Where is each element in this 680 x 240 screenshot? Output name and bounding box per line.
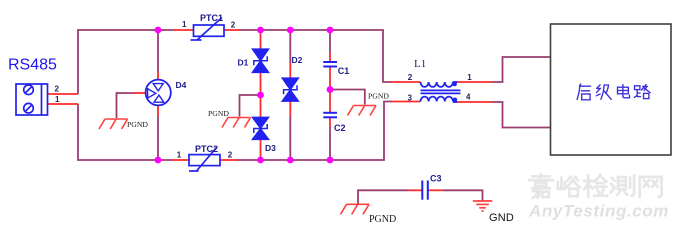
block: following-stage circuit box <box>551 24 672 155</box>
svg-text:C1: C1 <box>338 66 350 76</box>
svg-text:1: 1 <box>467 73 472 82</box>
wire D4 left to PGND1 <box>117 93 134 118</box>
svg-text:4: 4 <box>466 92 471 101</box>
wire D1-D3 midpoint to PGND2 <box>240 95 261 117</box>
svg-text:C3: C3 <box>430 173 442 183</box>
pin L1-4 red stub <box>458 101 492 103</box>
junction dot bottom rail at D3 <box>257 157 264 164</box>
svg-text:PGND: PGND <box>368 92 389 101</box>
pin RS485-1 red stub <box>48 103 79 105</box>
pin D4 top red stub <box>157 72 159 81</box>
svg-text:PTC2: PTC2 <box>195 144 218 154</box>
pin D3 bottom red stub <box>260 139 262 160</box>
wire D2 lower maroon part <box>289 116 291 160</box>
pin D2 bottom red stub <box>289 101 291 116</box>
pin RS485-2 red stub <box>48 93 79 95</box>
pin L1-1 red stub <box>458 81 492 83</box>
ground PGND symbol 2 (near D1/D3) <box>222 118 251 128</box>
pin PTC2-2 red stub <box>220 159 237 161</box>
ground PGND symbol 3 (near L1) <box>348 106 377 116</box>
wire net-A top rail right of PTC1 to L1 pin2 <box>240 30 392 82</box>
wire net-B bottom rail right of PTC2 to L1 pin3 <box>237 102 392 161</box>
diode D1 (bidirectional TVS) <box>252 49 269 73</box>
junction dot bottom rail at C2 <box>327 157 334 164</box>
diode D3 (bidirectional TVS) <box>252 117 269 139</box>
pin D1 bottom red stub <box>260 73 262 96</box>
pin C2 bottom red stub <box>329 117 331 127</box>
wire D2 upper maroon part <box>289 30 291 63</box>
svg-text:2: 2 <box>408 73 413 82</box>
svg-text:D2: D2 <box>292 55 303 65</box>
wire L1 pin1 to box <box>491 57 550 82</box>
svg-text:D4: D4 <box>176 80 187 90</box>
junction dot bottom rail at D2 <box>287 157 294 164</box>
junction dot top rail at D1 <box>257 27 264 34</box>
svg-text:2: 2 <box>228 150 233 159</box>
junction dot C1-C2 node <box>327 86 334 93</box>
pin C1 bottom red stub <box>329 67 331 90</box>
wire L1 pin4 to box <box>491 102 550 128</box>
pin D3 top red stub <box>260 95 262 119</box>
pin PTC1-2 red stub <box>224 29 240 31</box>
connector RS485 (2-pin terminal block) <box>16 84 48 115</box>
capacitor C1 <box>323 62 337 67</box>
ground GND symbol (bottom, C3 right) <box>473 201 493 211</box>
svg-text:1: 1 <box>182 20 187 29</box>
svg-text:L1: L1 <box>414 58 426 70</box>
junction dot top rail at C1 <box>327 27 334 34</box>
svg-text:RS485: RS485 <box>8 57 57 74</box>
svg-text:PTC1: PTC1 <box>200 13 223 23</box>
svg-text:2: 2 <box>231 21 236 30</box>
resistor PTC2 (PTC thermistor) <box>189 148 220 172</box>
svg-text:2: 2 <box>55 85 60 94</box>
svg-text:PGND: PGND <box>208 109 229 118</box>
junction dot top rail at D4 <box>155 27 162 34</box>
wire C3 net: cap to GND <box>443 190 483 200</box>
wire C3 net: PGND4 to cap <box>358 190 409 204</box>
pin PTC1-1 red stub <box>174 29 194 31</box>
svg-text:D3: D3 <box>265 143 276 153</box>
text 后级电路 (hand-drawn CJK strokes) <box>577 84 650 100</box>
watermark 嘉峪检测网 (hand-drawn CJK strokes) <box>529 174 661 197</box>
pin L1-2 red stub <box>392 81 421 83</box>
diode D4 (gas discharge tube) <box>146 80 171 106</box>
pin D4 bottom red stub <box>157 106 159 116</box>
junction dot bottom rail at D4 <box>155 157 162 164</box>
pin PTC2-1 red stub <box>172 159 189 161</box>
resistor PTC1 (PTC thermistor) <box>191 18 225 41</box>
svg-text:PGND: PGND <box>127 120 148 129</box>
svg-text:AnyTesting.com: AnyTesting.com <box>528 201 669 220</box>
wire C1 upper maroon part <box>329 30 331 53</box>
svg-text:3: 3 <box>408 93 413 102</box>
junction dot D1-D3 node <box>257 92 264 99</box>
pin C1 top red stub <box>329 53 331 62</box>
inductor L1 (common-mode choke) <box>421 82 461 102</box>
ground PGND symbol 1 (near D4) <box>99 119 128 129</box>
svg-text:D1: D1 <box>238 57 249 67</box>
pin D4 left red stub <box>134 92 146 94</box>
wire C2 lower maroon part <box>329 127 331 160</box>
wire D4 top vertical <box>157 30 159 72</box>
capacitor C3 <box>422 181 428 200</box>
junction dot top rail at D2 <box>287 27 294 34</box>
pin C3 right red stub <box>428 189 443 191</box>
pin L1-3 red stub <box>392 101 421 103</box>
wire net-A top rail left: RS485 pin2 up to rail <box>78 30 174 94</box>
svg-text:GND: GND <box>489 212 514 224</box>
pin C3 left red stub <box>409 189 423 191</box>
diode D2 (bidirectional TVS) <box>282 78 299 101</box>
svg-text:1: 1 <box>177 150 182 159</box>
pin D1 top red stub <box>260 30 262 49</box>
wire C1C2 midpoint to PGND3 and L1 pin3 branch <box>330 90 365 105</box>
ground PGND symbol 4 (bottom, C3 left) <box>341 204 370 214</box>
wire net-B bottom rail left: RS485 pin1 down to rail <box>78 104 172 160</box>
capacitor C2 <box>323 113 337 118</box>
pin C2 top red stub <box>329 90 331 113</box>
svg-text:PGND: PGND <box>369 214 396 225</box>
pin D2 top red stub <box>289 63 291 78</box>
svg-text:1: 1 <box>55 95 60 104</box>
wire D4 bottom vertical <box>157 116 159 161</box>
svg-text:C2: C2 <box>334 123 346 133</box>
